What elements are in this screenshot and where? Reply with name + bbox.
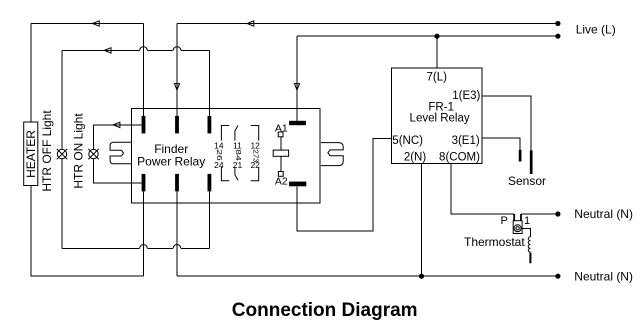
wire bottom Neutral rail	[177, 275, 558, 277]
wire heater-top to relay pin T1	[31, 24, 144, 123]
socket bar A2	[289, 182, 306, 187]
pin bar B2	[175, 174, 179, 192]
svg-text:HTR OFF Light: HTR OFF Light	[40, 110, 54, 192]
pin bar T3	[208, 116, 212, 133]
thermostat TH1	[513, 214, 522, 234]
svg-text:Live (L): Live (L)	[576, 22, 616, 36]
lamp HTR OFF Light	[40, 110, 67, 192]
relay coil	[273, 137, 288, 172]
wire 1E3 to long sensor probe	[482, 96, 531, 150]
svg-text:2(N): 2(N)	[404, 151, 427, 163]
heater HTR1 box	[24, 122, 38, 186]
pin numbers 12 / 22	[250, 141, 260, 170]
pin bar T1	[142, 116, 146, 133]
svg-text:3(E1): 3(E1)	[452, 135, 480, 147]
wire 3E1 to short sensor probe	[482, 138, 520, 150]
coil terminal A1	[275, 123, 288, 137]
svg-text:7(L): 7(L)	[426, 71, 447, 83]
junction 7L tap	[434, 34, 439, 39]
svg-text:8(COM): 8(COM)	[439, 151, 480, 163]
socket bar A1	[289, 121, 306, 125]
pin bar B1	[142, 174, 146, 192]
wire net C: relay pin T2 to Live L	[177, 24, 558, 120]
node Live L line 1	[555, 21, 560, 26]
wire 2N to neutral rail	[421, 164, 423, 277]
arrow on net C	[247, 21, 254, 26]
wire net D: relay coil A1 to Live L	[297, 36, 558, 121]
pin numbers 11 / 21	[233, 141, 243, 170]
wire heater-bottom to relay pin B1	[31, 186, 144, 276]
wire HTR OFF lamp bottom to pin B3 (net H1)	[62, 159, 209, 249]
retaining clip right	[321, 143, 343, 166]
node Live L line 2	[555, 34, 560, 39]
node Neutral mid	[555, 211, 560, 216]
wire pin B2 to Neutral N	[176, 191, 178, 276]
lamp HTR ON Light	[72, 113, 99, 189]
svg-text:Connection Diagram: Connection Diagram	[232, 300, 418, 321]
contact 3 fixed bracket	[251, 126, 259, 181]
svg-text:Power Relay: Power Relay	[137, 154, 205, 168]
pin numbers 14 / 24	[214, 141, 224, 170]
svg-text:A2: A2	[275, 176, 288, 188]
sensor probe short	[519, 150, 522, 162]
node Neutral end	[555, 274, 560, 279]
arrow down on A1 drop	[294, 84, 299, 90]
relay U1 FR-1 Level Relay outline	[392, 68, 483, 164]
svg-text:Sensor: Sensor	[508, 174, 546, 188]
pin bar T2	[175, 116, 179, 133]
sensor probe long	[530, 150, 533, 174]
contact 2 moving blade	[235, 126, 238, 181]
arrow on lamp ON top wire	[113, 122, 120, 127]
svg-text:Level Relay: Level Relay	[410, 112, 470, 124]
wire HTR ON lamp bottom to pin B1 bar	[94, 159, 142, 183]
svg-text:Thermostat: Thermostat	[464, 235, 525, 249]
svg-text:1(E3): 1(E3)	[452, 90, 480, 102]
junction 2N at neutral rail	[419, 274, 424, 279]
retaining clip left	[110, 142, 131, 164]
wire thermostat 1 to Neutral N	[521, 213, 558, 215]
wire coil A2 to FR-1 5(NC)	[297, 139, 392, 231]
svg-text:Neutral (N): Neutral (N)	[574, 270, 633, 284]
relay K1 Finder Power Relay outline	[132, 109, 321, 203]
svg-text:Neutral (N): Neutral (N)	[574, 207, 633, 221]
svg-text:A1: A1	[275, 123, 288, 135]
label Finder Power Relay	[137, 142, 205, 168]
coil terminal A2	[275, 172, 288, 188]
svg-text:P: P	[501, 215, 508, 227]
thermostat heater element	[522, 228, 530, 263]
wire net B: HTR OFF lamp top to relay pin T3	[62, 47, 209, 150]
arrow on net B	[104, 48, 111, 53]
wire 7L from Live	[436, 36, 438, 68]
svg-text:22: 22	[250, 160, 260, 170]
wire HTR ON lamp top to pin T1 bar	[94, 125, 142, 150]
pin bar B3	[208, 174, 212, 192]
arrow on heater top wire	[92, 21, 99, 26]
svg-text:21: 21	[233, 160, 243, 170]
arrow down on pin T2 drop	[174, 84, 179, 90]
svg-text:24: 24	[214, 160, 224, 170]
wire 8COM to thermostat P	[451, 164, 514, 215]
svg-text:1: 1	[524, 215, 530, 227]
svg-text:HEATER: HEATER	[24, 130, 38, 178]
svg-text:5(NC): 5(NC)	[392, 135, 423, 147]
svg-text:HTR ON Light: HTR ON Light	[72, 113, 86, 189]
contact 1 fixed bracket	[221, 126, 229, 181]
